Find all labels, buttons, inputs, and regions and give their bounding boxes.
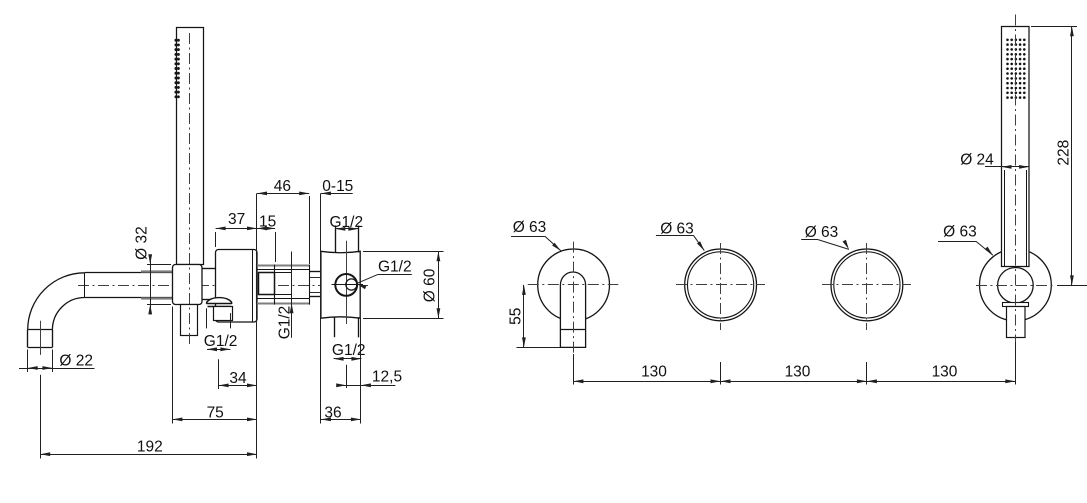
dimension 34 [219, 370, 257, 387]
dimension 46 extension right [309, 196, 311, 264]
wand spray-face dots (side view) [174, 39, 179, 99]
rosette 1 horizontal centerline [528, 284, 619, 286]
holder clamp collar [1003, 303, 1029, 307]
svg-text:130: 130 [785, 364, 811, 381]
rosette 2 vertical centerline [720, 243, 722, 330]
top pipe stub G1/2 [336, 226, 359, 253]
vertical reference line valve body left edge [320, 193, 322, 423]
rosette 3 vertical centerline [866, 243, 868, 330]
svg-text:Ø 63: Ø 63 [513, 219, 547, 236]
rosette 4 vertical centerline [1015, 15, 1017, 354]
spout horizontal tube [85, 273, 173, 298]
wall reference line below valve body [360, 318, 362, 423]
svg-text:75: 75 [207, 404, 224, 421]
spout thread shading at wall end [141, 272, 173, 299]
dimension 55 [507, 285, 560, 348]
rosette 3 horizontal centerline [822, 284, 911, 286]
svg-text:130: 130 [641, 364, 667, 381]
dimension chain 130 extension lines [574, 342, 1016, 385]
dimension 75 [172, 404, 257, 421]
svg-text:228: 228 [1056, 140, 1073, 166]
concealed valve threaded body [257, 265, 310, 305]
holder ball joint [998, 268, 1034, 304]
svg-text:Ø 32: Ø 32 [134, 226, 151, 260]
label Ø63 rosette 2 [656, 220, 704, 250]
rosette 4 (hand shower holder) front view [980, 249, 1052, 321]
svg-text:192: 192 [137, 439, 163, 456]
dimension 15 [257, 214, 276, 262]
valve body Ø60 (side view) [321, 251, 360, 318]
valve body centerline vertical [346, 241, 348, 324]
port inner circle [346, 279, 357, 290]
dimension 130 (second) [721, 364, 867, 384]
spout end cap [28, 330, 53, 348]
svg-text:46: 46 [274, 178, 291, 195]
label Ø63 rosette 4 [938, 223, 993, 255]
shower holder grip [173, 265, 203, 305]
svg-text:15: 15 [259, 214, 276, 231]
spout tube front view [560, 272, 585, 347]
rosette 1 (spout) front view [538, 249, 610, 321]
dimension 36 [321, 404, 361, 421]
wand vertical centerline [189, 33, 191, 347]
dimension 0-15 [321, 178, 353, 195]
svg-text:Ø 60: Ø 60 [421, 268, 438, 302]
vertical reference line at wall thread [256, 193, 258, 458]
label Ø63 rosette 1 [511, 219, 561, 251]
dimension Ø60 [363, 251, 444, 318]
hand shower wand body (side view) [177, 28, 204, 265]
hose connection nut [206, 298, 232, 307]
label G1/2 top stub [329, 214, 363, 231]
dimension 192 [40, 439, 257, 456]
dimension Ø24 of wand [960, 151, 1029, 168]
label G1/2 side port with leader [357, 259, 412, 290]
bottom pipe stub G1/2 [335, 317, 359, 337]
spout curved bend [28, 273, 85, 330]
svg-text:36: 36 [324, 404, 341, 421]
dimension Ø32 of holder [134, 226, 171, 314]
holder neck [202, 269, 216, 300]
svg-text:130: 130 [932, 364, 958, 381]
port circle G1/2 [335, 274, 357, 296]
wand handle lower tube [181, 305, 198, 336]
rosette 1 vertical centerline [573, 242, 575, 356]
dimension 46 [257, 178, 309, 195]
port horizontal centerline [332, 284, 364, 286]
dimension 75 extension [172, 307, 174, 424]
label G1/2 bottom inlet (rotated) [276, 252, 293, 340]
dimension 228 [1031, 26, 1087, 285]
svg-text:37: 37 [228, 211, 245, 228]
dimension 34 extension [218, 359, 220, 389]
dimension 37 [216, 211, 258, 247]
svg-text:34: 34 [229, 370, 247, 387]
rosette 3 (valve) front view [831, 249, 903, 321]
dimension 130 (third) [867, 364, 1015, 384]
dimension 130 (first) [573, 364, 720, 384]
valve inner cartridge box [259, 273, 275, 295]
connecting pipe [309, 272, 321, 297]
dimension 12,5 [336, 365, 402, 388]
label G1/2 hose port [204, 308, 238, 351]
dimension 192 extension left [40, 375, 42, 459]
hand shower hose end [1007, 307, 1026, 338]
svg-text:Ø 63: Ø 63 [660, 220, 694, 237]
label Ø63 rosette 3 [801, 224, 849, 250]
svg-text:55: 55 [507, 308, 524, 325]
svg-text:Ø 63: Ø 63 [943, 223, 977, 240]
svg-text:G1/2: G1/2 [378, 259, 412, 276]
svg-text:Ø 63: Ø 63 [805, 224, 839, 241]
dimension Ø22 of spout outlet [19, 350, 95, 373]
label G1/2 bottom stub [332, 342, 366, 361]
wall rosette (side view) [216, 250, 258, 323]
spout tip centerline [40, 321, 42, 355]
rosette 4 horizontal centerline [976, 285, 1055, 287]
wand spray-face dots (front view) [1006, 39, 1025, 99]
wire: main horizontal centerline (left view) [78, 285, 368, 287]
rosette 2 horizontal centerline [676, 284, 765, 286]
hand shower wand front view [1002, 27, 1030, 267]
hose outlet port [214, 307, 233, 321]
svg-text:0-15: 0-15 [322, 178, 353, 195]
svg-text:12,5: 12,5 [372, 369, 402, 386]
rosette 2 (valve) front view [685, 249, 757, 321]
svg-text:Ø 22: Ø 22 [59, 353, 93, 370]
svg-text:Ø 24: Ø 24 [960, 151, 994, 168]
